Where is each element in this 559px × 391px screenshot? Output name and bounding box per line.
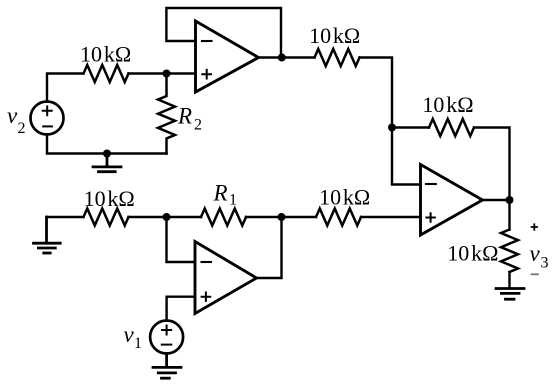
junction dot ground rail (103, 150, 111, 158)
wire R1 to node D (246, 216, 316, 218)
op-amp U3 triangle (195, 242, 257, 314)
ground G3 (below v1) (153, 354, 181, 379)
svg-text:10 kΩ: 10 kΩ (319, 184, 370, 209)
svg-text:3: 3 (541, 254, 549, 271)
op-amp U1 triangle (196, 21, 259, 92)
resistor 10k load (v3) (501, 230, 518, 272)
v3 polarity minus (531, 273, 539, 275)
U3 minus sign (202, 261, 212, 263)
svg-text:2: 2 (18, 120, 26, 137)
U2 minus sign (426, 183, 436, 185)
resistor 10k bottom-left (84, 209, 129, 226)
resistor R2 vertical (158, 74, 175, 154)
resistor 10k bottom-middle (316, 209, 361, 226)
wire resistor to op-amp U1 plus input (129, 72, 196, 74)
svg-text:v: v (530, 241, 541, 266)
svg-text:10 kΩ: 10 kΩ (422, 92, 473, 117)
v2 plus sign (43, 106, 52, 115)
wire feedback resistor to output node (474, 128, 510, 201)
resistor R1 (201, 209, 246, 226)
v2 minus sign (43, 125, 52, 127)
wire node C to U3 minus input (167, 217, 196, 262)
resistor 10k (U1 output to node B) (315, 49, 360, 66)
svg-text:R: R (213, 180, 228, 205)
v1 minus sign (162, 344, 172, 346)
ground G1 (v2 loop) (93, 154, 121, 172)
node D junction dot (U3 output node) (278, 213, 286, 221)
U1 minus sign (202, 40, 212, 42)
svg-text:R: R (177, 104, 192, 129)
node B junction dot (388, 124, 396, 132)
svg-text:2: 2 (194, 117, 202, 134)
ground G4 (below v3 resistor) (496, 289, 524, 300)
node A junction dot (U1 plus node) (163, 70, 171, 78)
resistor 10k feedback (U2) (429, 119, 474, 136)
svg-text:1: 1 (229, 192, 237, 209)
svg-text:v: v (7, 103, 18, 128)
wire U2 output (483, 199, 510, 201)
junction dot U1 output (278, 54, 286, 62)
voltage source v1 circle (150, 321, 183, 354)
svg-text:1: 1 (134, 335, 142, 352)
svg-text:10 kΩ: 10 kΩ (447, 240, 498, 265)
wire U1 feedback loop (output to minus input) (166, 8, 281, 58)
wire U3 plus input to v1 (167, 297, 195, 321)
wire node B to feedback resistor (392, 126, 429, 128)
svg-text:10 kΩ: 10 kΩ (84, 186, 135, 211)
node v3 junction dot (506, 196, 514, 204)
svg-text:10 kΩ: 10 kΩ (309, 23, 360, 48)
wire v2 bottom to ground rail (47, 134, 167, 153)
wire resistor to U2 plus input (361, 216, 421, 218)
wire resistor to ground G4 (508, 272, 510, 287)
wire U1 output (259, 56, 315, 58)
svg-text:v: v (124, 322, 135, 347)
wire node B to U2 minus input (392, 128, 421, 185)
node C junction dot (163, 213, 171, 221)
wire resistor to node C (129, 216, 202, 218)
U2 plus sign (426, 213, 434, 221)
voltage source v2 circle (31, 102, 64, 135)
v3 polarity plus (531, 223, 538, 230)
ground G2 (bottom-left) (34, 217, 61, 253)
U3 plus sign (202, 293, 211, 301)
v1 plus sign (162, 326, 171, 335)
wire v2 top to resistor corner (47, 74, 84, 102)
op-amp U2 triangle (421, 165, 483, 236)
wire resistor to node B (360, 58, 393, 128)
svg-text:10 kΩ: 10 kΩ (80, 42, 131, 67)
wire v3 node down to resistor (508, 200, 510, 230)
U1 plus sign (202, 70, 211, 79)
resistor 10k top-left (84, 65, 129, 82)
wire ground to resistor (47, 216, 84, 218)
wire U3 output to node D (257, 217, 282, 278)
